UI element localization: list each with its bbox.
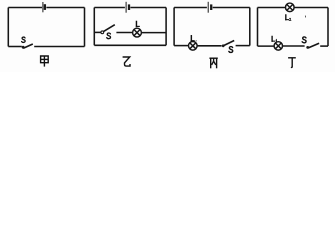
label S (panel1): [22, 37, 26, 42]
label S (panel3): [229, 47, 233, 53]
label L (panel3): [191, 36, 196, 42]
switch S1 contact dot: [22, 46, 25, 49]
wire: panel1 top right segment: [46, 7, 84, 9]
battery B2 thick short plate: [128, 4, 130, 10]
switch S4 contact dot: [306, 46, 309, 49]
wire: panel3 top left segment: [174, 7, 207, 9]
battery B3 thin long plate: [207, 2, 209, 13]
battery B2 thin long plate: [125, 2, 127, 13]
wire: panel2 bottom wire: [94, 44, 166, 46]
wire: panel4 bottom left segment: [258, 45, 275, 47]
wire: panel3 top right segment: [213, 7, 250, 9]
label yi (panel caption): [123, 57, 130, 66]
wire: panel4 bottom middle segment: [283, 45, 305, 47]
lamp L1 (panel4 bottom): [274, 42, 282, 50]
wire: panel2 top left segment: [94, 7, 125, 9]
battery B1 thick short plate: [44, 4, 46, 10]
wire: panel2 middle branch left stub: [94, 31, 101, 33]
wire: panel4 top left segment: [258, 7, 286, 9]
wire: panel1 left vertical: [7, 8, 9, 47]
switch S1 blade: [23, 44, 33, 48]
lamp L2 (panel4 top): [286, 3, 295, 12]
wire: panel3 bottom middle segment: [197, 45, 221, 47]
wire: panel2 middle branch center segment: [116, 32, 132, 34]
switch S2 blade: [104, 25, 115, 32]
wire: panel2 left vertical: [93, 8, 95, 46]
wire: panel1 bottom right segment: [34, 46, 84, 48]
switch S3 contact dot: [222, 44, 225, 47]
wire: panel3 right vertical: [249, 8, 251, 46]
switch S4 blade: [308, 43, 319, 48]
label ding (panel caption): [288, 58, 296, 68]
wire: panel4 top right segment: [294, 7, 328, 9]
label L1 (panel4 bottom): [272, 36, 276, 42]
wire: panel1 top left segment: [8, 7, 42, 9]
battery B1 thin long plate: [42, 2, 44, 12]
label jia (panel caption): [41, 56, 49, 67]
label L2 (panel4 top): [286, 15, 291, 21]
wire: panel3 left vertical: [173, 8, 175, 46]
lamp L (panel2): [133, 28, 142, 37]
lamp L (panel3): [189, 42, 198, 51]
switch S3 blade: [224, 41, 234, 46]
battery B3 thick short plate: [210, 4, 212, 10]
wire: panel2 middle branch right segment: [141, 32, 166, 34]
label S (panel2): [107, 33, 111, 39]
wire: panel2 right vertical: [165, 8, 167, 46]
wire: panel3 bottom left segment: [174, 45, 188, 47]
label S (panel4): [302, 37, 306, 43]
wire: panel2 top right segment: [130, 7, 166, 9]
wire: panel4 left vertical: [257, 8, 259, 47]
label bing (panel caption): [209, 58, 217, 68]
wire: panel1 bottom left segment: [8, 46, 21, 48]
wire: panel4 bottom right segment: [320, 45, 328, 47]
wire: panel4 right vertical: [327, 8, 329, 47]
label L (panel2): [136, 21, 139, 26]
wire: panel3 bottom right segment: [236, 45, 250, 47]
stray tick mark right of L2 label: [304, 16, 306, 18]
switch S2 pivot contact (open circle): [101, 31, 104, 34]
wire: panel1 right vertical: [84, 8, 86, 47]
